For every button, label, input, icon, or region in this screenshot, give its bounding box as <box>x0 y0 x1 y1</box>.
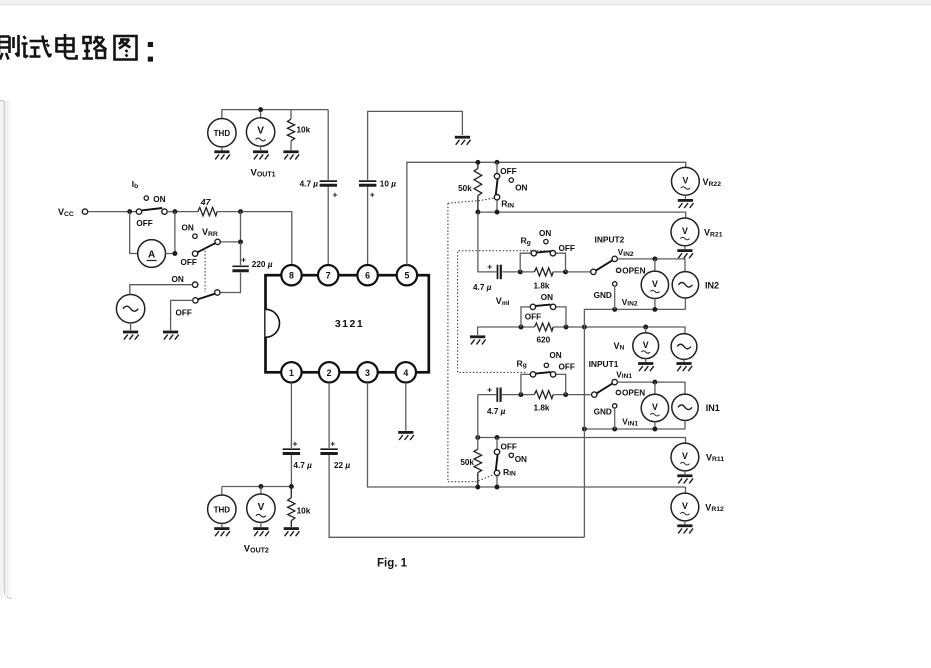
svg-text:VR11: VR11 <box>706 452 724 463</box>
IC notch <box>266 309 280 337</box>
svg-text:V: V <box>682 451 688 461</box>
ground <box>163 332 179 340</box>
svg-text:VR12: VR12 <box>705 502 724 513</box>
wire cap to 1.8k input1 <box>502 394 534 396</box>
svg-text:ON: ON <box>541 293 553 302</box>
node vin1 meter top <box>652 380 657 385</box>
node rail22 a <box>475 160 480 165</box>
char 测 (clipped at left edge) <box>0 35 19 60</box>
node in1 bottom a <box>652 427 657 432</box>
voltmeter VR21 <box>671 218 699 246</box>
ground <box>253 152 269 160</box>
svg-text:RIN: RIN <box>503 467 516 478</box>
capacitor 220u <box>240 242 242 265</box>
pin 5 <box>397 265 417 285</box>
node input2 cap-right <box>518 269 523 274</box>
svg-text:VR22: VR22 <box>703 177 722 188</box>
svg-text:OFF: OFF <box>559 244 575 253</box>
svg-text:ON: ON <box>515 183 527 192</box>
voltmeter VIN1 <box>654 382 656 394</box>
ground <box>253 529 269 537</box>
switch source-select <box>215 290 220 295</box>
svg-text:47: 47 <box>200 197 212 207</box>
node V1 top <box>258 107 263 112</box>
capacitor 4.7u input2 <box>498 265 501 280</box>
resistor 1.8k input1 <box>534 391 553 399</box>
node rail11 b <box>495 435 500 440</box>
svg-text:VIN1: VIN1 <box>616 370 632 380</box>
ground <box>284 529 300 537</box>
meter V (VOUT1) <box>246 118 274 146</box>
wire 22u to bottom bus <box>329 455 584 537</box>
svg-text:5: 5 <box>404 271 409 281</box>
sine source left <box>116 295 144 323</box>
svg-text:RIN: RIN <box>501 199 514 210</box>
svg-text:Rg: Rg <box>517 358 527 369</box>
svg-text:OFF: OFF <box>136 219 152 228</box>
svg-text:4.7 µ: 4.7 µ <box>300 179 319 188</box>
wire top bus VOUT1 <box>222 110 328 119</box>
svg-text:Rg: Rg <box>521 236 531 247</box>
voltmeter VR11 <box>671 443 699 471</box>
linkage dotted VRR <box>204 247 206 292</box>
svg-text:50k: 50k <box>458 184 472 193</box>
svg-text:THD: THD <box>214 506 231 515</box>
char 图 <box>115 36 137 60</box>
svg-text:VN: VN <box>614 341 625 352</box>
capacitor 4.7u input1 <box>497 388 500 402</box>
node in2 bottom a <box>652 307 657 312</box>
voltmeter VR12 <box>671 493 699 521</box>
wire input1 row <box>478 394 497 396</box>
svg-text:OFF: OFF <box>176 308 192 317</box>
resistor 47 <box>198 207 217 215</box>
svg-text:VRR: VRR <box>202 227 218 238</box>
svg-text:10k: 10k <box>297 507 311 516</box>
terminal GND input2 <box>613 282 617 286</box>
node rail12 b <box>495 485 500 490</box>
wire to 47 <box>167 211 198 213</box>
pin 6 <box>357 265 377 285</box>
terminal GND input1 <box>613 404 617 408</box>
ground VR21 <box>677 251 693 259</box>
wire input2 bottom <box>584 309 685 310</box>
svg-text:OPEN: OPEN <box>622 266 645 275</box>
wire sine to gnd <box>130 323 132 331</box>
svg-text:4.7 µ: 4.7 µ <box>293 461 312 470</box>
vertical bus common <box>583 310 585 537</box>
wire OFF contact to gnd <box>171 300 193 330</box>
svg-text:A: A <box>148 249 155 260</box>
svg-text:+: + <box>293 439 298 449</box>
node rail21 b <box>495 210 500 215</box>
svg-text:3: 3 <box>365 368 370 378</box>
ground top-right <box>455 137 471 145</box>
svg-text:3121: 3121 <box>335 318 364 330</box>
ground pin4 <box>398 432 414 440</box>
capacitor 22u (pin2) <box>320 449 337 453</box>
wire V to gnd <box>260 146 262 150</box>
ground <box>283 152 299 160</box>
node B <box>172 209 177 214</box>
svg-text:ON: ON <box>539 229 551 238</box>
title 测试电路图： hand-drawn <box>0 34 153 62</box>
svg-text:VOUT2: VOUT2 <box>244 544 269 555</box>
wire 1.8k to vin2 switch <box>553 271 591 273</box>
wire bus to 50k bottom <box>477 395 479 450</box>
resistor 50k bottom <box>474 449 482 487</box>
resistor 10k (VOUT2 load) <box>288 487 295 528</box>
meter V (VOUT2) <box>260 487 262 495</box>
capacitor 4.7u (pin1) <box>283 449 300 453</box>
wire pin2 drop <box>328 383 330 448</box>
left panel edge <box>0 101 12 599</box>
wire pin1 drop <box>290 383 292 448</box>
wire 10k to gnd <box>290 141 292 150</box>
char 路 <box>83 36 107 59</box>
top bar <box>0 0 931 5</box>
node rail22 b <box>495 160 500 165</box>
svg-text:OFF: OFF <box>525 312 541 321</box>
wire down to A meter <box>130 212 138 254</box>
svg-text:THD: THD <box>214 129 231 138</box>
svg-text:V: V <box>682 501 688 511</box>
svg-text:50k: 50k <box>460 458 474 467</box>
wire bus down to input2 row <box>478 212 497 272</box>
node 620 left <box>519 325 524 330</box>
wire 220u bottom to selector <box>220 273 241 293</box>
sine source IN2 <box>672 272 698 298</box>
svg-text:ON: ON <box>172 275 184 284</box>
svg-text:IN1: IN1 <box>706 403 720 413</box>
node input1 cap-right <box>518 392 523 397</box>
pin 3 <box>357 362 377 382</box>
node rail21 a <box>475 210 480 215</box>
svg-text:1.8k: 1.8k <box>534 403 550 412</box>
char 试 <box>22 36 52 58</box>
wire vin1 to meters <box>617 382 685 394</box>
svg-text:+: + <box>487 384 492 394</box>
node C <box>238 209 243 214</box>
node 620 bus <box>582 325 587 330</box>
wire pin3 drop <box>368 383 686 487</box>
node input1 res-right <box>563 392 568 397</box>
svg-text:8: 8 <box>289 271 294 281</box>
node D <box>172 251 177 256</box>
svg-text:+: + <box>241 255 246 265</box>
wire ON contact to sine <box>130 285 193 295</box>
char 电 <box>57 34 77 59</box>
ground VR22 <box>678 200 694 208</box>
svg-text:Fig. 1: Fig. 1 <box>377 558 408 570</box>
node 620 right <box>564 325 569 330</box>
svg-text:4: 4 <box>403 368 408 378</box>
wire Vcc to Ib switch <box>88 211 137 213</box>
resistor 50k top <box>474 162 482 212</box>
wire to vin1 switch <box>553 394 591 396</box>
switch Rg input1 bypass <box>521 374 566 394</box>
wire pin5 to VR22 rail <box>407 162 686 265</box>
switch Vml <box>521 307 566 327</box>
svg-text:620: 620 <box>537 336 551 345</box>
node in1 bottom bus <box>582 427 587 432</box>
svg-text:10 µ: 10 µ <box>380 179 396 188</box>
svg-text:OFF: OFF <box>559 363 575 372</box>
svg-text:6: 6 <box>365 271 370 281</box>
wire cap to node <box>222 455 291 487</box>
switch RIN top <box>496 162 498 212</box>
svg-text:OFF: OFF <box>181 258 197 267</box>
voltmeter VIN2 <box>654 259 656 271</box>
svg-text:OPEN: OPEN <box>622 389 645 398</box>
sine source (IN1 aux) <box>671 334 697 360</box>
fullwidth colon <box>148 42 153 47</box>
wire A meter to node <box>166 212 175 254</box>
ground <box>214 529 230 537</box>
ground <box>214 152 230 160</box>
svg-text:VIN1: VIN1 <box>622 418 638 428</box>
svg-text:V: V <box>682 226 688 236</box>
svg-text:V: V <box>643 340 649 350</box>
resistor 1.8k input2 <box>534 268 553 276</box>
svg-text:22 µ: 22 µ <box>334 461 350 470</box>
svg-text:V: V <box>258 502 265 513</box>
wire pin7 riser <box>327 110 329 265</box>
svg-text:Ib: Ib <box>132 179 138 190</box>
svg-text:GND: GND <box>594 291 612 300</box>
wire 47 to pin8 <box>217 212 292 265</box>
meter THD (VOUT1) <box>208 119 236 147</box>
svg-text:VR21: VR21 <box>704 228 723 239</box>
voltmeter VN <box>645 327 647 333</box>
svg-text:220 µ: 220 µ <box>252 260 273 269</box>
pin 8 <box>281 265 301 285</box>
svg-text:VIN2: VIN2 <box>622 298 638 308</box>
svg-text:Vml: Vml <box>496 296 510 307</box>
svg-text:1: 1 <box>289 368 294 378</box>
svg-text:V: V <box>652 279 658 289</box>
switch Rg input2 bypass <box>520 253 565 272</box>
wire cap to 1.8k <box>502 271 534 273</box>
wire input1 bottom <box>584 428 685 430</box>
linkage dotted RIN <box>448 198 494 481</box>
node input2 res-right <box>563 269 568 274</box>
svg-text:1.8k: 1.8k <box>534 281 550 290</box>
node vin2 meter top <box>652 256 657 261</box>
IC 3121 body <box>266 275 429 372</box>
ground VR11 <box>677 476 693 484</box>
wire pin4 to gnd <box>405 383 407 431</box>
svg-text:V: V <box>682 175 688 185</box>
voltmeter VR22 <box>672 167 700 195</box>
ground VN <box>638 364 654 372</box>
node in2 bottom b <box>612 307 617 312</box>
capacitor 10u (pin6) <box>359 181 376 185</box>
svg-text:2: 2 <box>327 368 332 378</box>
svg-text:4.7 µ: 4.7 µ <box>473 283 492 292</box>
pin 4 <box>396 362 416 382</box>
svg-text:OFF: OFF <box>501 442 517 451</box>
wire vin2 to meters <box>617 259 685 272</box>
node VN tap <box>643 325 648 330</box>
capacitor 4.7u (pin7) <box>320 181 337 185</box>
svg-text:V: V <box>652 402 658 412</box>
sine source IN1 <box>672 394 698 420</box>
resistor 10k (VOUT1 load) <box>287 119 294 141</box>
wire pin6 riser <box>368 111 463 265</box>
ground <box>123 332 139 340</box>
svg-text:+: + <box>487 262 492 272</box>
svg-text:ON: ON <box>182 223 194 232</box>
resistor 620 <box>534 323 553 331</box>
svg-text:+: + <box>330 439 335 449</box>
pin 2 <box>319 362 339 382</box>
svg-text:VOUT1: VOUT1 <box>251 168 276 179</box>
svg-text:VCC: VCC <box>58 207 74 218</box>
wire rail VR12 drop <box>685 487 687 493</box>
svg-text:OFF: OFF <box>500 167 516 176</box>
wire 620 row <box>478 327 685 335</box>
wire THD to gnd <box>221 147 223 150</box>
switch RIN bottom <box>496 438 498 488</box>
svg-text:INPUT2: INPUT2 <box>595 234 625 244</box>
svg-text:INPUT1: INPUT1 <box>589 359 619 369</box>
ground 620 <box>470 337 486 345</box>
svg-text:ON: ON <box>549 351 561 360</box>
svg-text:7: 7 <box>326 271 331 281</box>
node A <box>127 209 132 214</box>
node in1 bottom b <box>612 427 617 432</box>
wire rail VR21 <box>478 212 686 217</box>
svg-text:GND: GND <box>594 407 612 416</box>
svg-text:+: + <box>370 190 375 200</box>
pin 7 <box>318 265 338 285</box>
svg-text:V: V <box>257 126 264 137</box>
svg-text:+: + <box>333 190 338 200</box>
svg-text:IN2: IN2 <box>705 280 719 290</box>
svg-text:10k: 10k <box>297 126 311 135</box>
svg-text:VIN2: VIN2 <box>618 248 634 258</box>
svg-text:4.7 µ: 4.7 µ <box>487 407 506 416</box>
pin 1 <box>281 362 301 382</box>
meter THD (VOUT2) <box>221 487 223 496</box>
ammeter A <box>138 240 166 268</box>
switch VIN2 <box>591 269 596 274</box>
node VOUT2 <box>289 484 294 489</box>
linkage dotted Rg <box>458 251 545 373</box>
switch VIN1 <box>592 392 597 397</box>
svg-text:ON: ON <box>515 455 527 464</box>
node rail12 a <box>475 485 480 490</box>
ground aux source <box>676 364 692 372</box>
wire rail VR11 <box>478 438 686 444</box>
ground VR12 <box>677 526 693 534</box>
svg-text:ON: ON <box>153 195 165 204</box>
node rail11 a <box>475 435 480 440</box>
